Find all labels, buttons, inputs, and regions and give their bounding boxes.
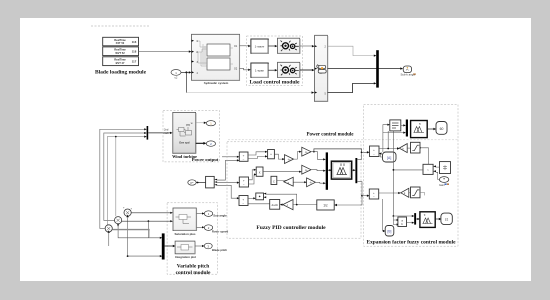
wire mux4 to integrator block [165, 245, 173, 247]
svg-text:control module: control module [176, 270, 211, 276]
expansion mux2b bar [406, 120, 408, 137]
wire tag A up-loop into sample hold [383, 125, 388, 152]
wire sumR1 out with junction up to sample hold [379, 131, 397, 149]
svg-text:Gen spd: Gen spd [179, 141, 190, 145]
outport oval 2 [206, 141, 215, 146]
wire drivetrain out2 to scope (through bus) [328, 68, 401, 70]
wire circleC up arrow from below [108, 230, 110, 233]
wire sumR2 out to gainR2 [379, 192, 399, 194]
thick gray feedback line [113, 229, 150, 231]
wire up into circleA from below [126, 215, 128, 218]
wire wind out1 to oval [196, 122, 204, 124]
wire pow to gain small [274, 154, 282, 159]
wire long vertical 2 to mux and circleB left [104, 133, 145, 220]
output rounded block s1 [441, 213, 452, 225]
wind mux bar [147, 126, 149, 140]
svg-text:Fuzzy PID controller module: Fuzzy PID controller module [256, 225, 326, 231]
svg-text:-k-: -k- [305, 168, 308, 172]
svg-text:mab: mab [164, 131, 170, 135]
sum block 3 [239, 196, 248, 206]
svg-text:RealTime: RealTime [114, 47, 126, 51]
wire fuzzy2 to goto block [427, 128, 434, 130]
signal builder block 1 [103, 37, 139, 46]
wire bottom feedback to mux4 in3 [128, 255, 160, 257]
wire wind mux to wind turbine block [148, 132, 170, 134]
wire tag A branch to mux2b in2 [383, 132, 404, 134]
integrator block [175, 241, 195, 254]
wire gain5 to mux in3 [315, 181, 325, 184]
wire from tag A to sumR1 lower input [380, 154, 383, 158]
outport oval blade pitch [204, 243, 212, 249]
drivetrain gear block 2 [278, 62, 300, 77]
wire long vertical 1 to mux and circleC left [100, 129, 145, 228]
wire divide to mux3 in2 [407, 222, 413, 224]
wire sum3 to n block [248, 198, 270, 204]
svg-text:Load control module: Load control module [250, 80, 300, 86]
wire hydraulic out2 to span block [240, 68, 249, 70]
du-dt derivative block [270, 200, 280, 210]
c constant block [271, 176, 277, 184]
expansion sumR1 block [370, 146, 380, 157]
pow function block [268, 150, 275, 159]
svg-text:−: − [243, 157, 245, 161]
variable pitch mux4 bar [162, 233, 165, 259]
hydraulic system subsystem block [192, 34, 240, 80]
gain triangle 3 [302, 165, 311, 174]
svg-text:du/dt: du/dt [272, 203, 278, 207]
busbar mux [376, 50, 379, 87]
wire from tag to rate block with junction [196, 182, 205, 184]
svg-text:−: − [243, 182, 245, 186]
svg-text:+: + [123, 207, 125, 210]
sum circle C [105, 225, 112, 232]
svg-text:117: 117 [132, 60, 137, 64]
svg-text:RealTime: RealTime [114, 38, 126, 42]
sum block 1 [239, 152, 248, 161]
pitch subsystem block [173, 208, 197, 231]
sum circle B [115, 217, 122, 224]
wire hydraulic out1 to wave block [240, 45, 249, 47]
wire to gear block 1 [268, 45, 275, 47]
gain triangle R2 [401, 188, 409, 197]
outport oval sub angle [204, 211, 212, 217]
wire sum1 upper feed from box edge [222, 156, 237, 158]
relay block M2 (mirrored inputs right) [423, 164, 436, 174]
svg-text:Saturation plus: Saturation plus [174, 232, 195, 236]
wires sum2 to product block [249, 170, 255, 184]
small ref block SR1 [440, 162, 451, 174]
wire sum1 feed: bend from right [217, 160, 237, 180]
svg-text:FXT 50: FXT 50 [116, 41, 125, 45]
svg-text:Rotor speed: Rotor speed [212, 229, 229, 233]
gain triangle R1 [399, 144, 407, 153]
signal builder block 2 [103, 47, 139, 56]
wire junction down to drivetrain in3 [185, 72, 187, 92]
wire wind out2 thick to oval [196, 142, 204, 144]
svg-text:x: x [259, 171, 261, 175]
wire demux out1 up to sumR1 feed [357, 153, 361, 160]
signal builder block 3 [103, 57, 139, 66]
expansion fuzzy block 2 [411, 121, 428, 138]
svg-text:118: 118 [132, 50, 137, 54]
sample hold block [390, 120, 401, 131]
wire circleA out to pitch subsystem in1 [132, 212, 171, 214]
wire gear1 to drivetrain tall block in1 [300, 45, 312, 47]
from tag A rounded [383, 152, 397, 162]
fuzzy logic controller block [331, 161, 351, 179]
svg-text:60: 60 [440, 127, 444, 131]
wire sum2 feed straight [217, 182, 237, 184]
svg-text:u2: u2 [175, 77, 178, 80]
wire integrator out to oval [195, 245, 202, 247]
scope block [403, 66, 411, 73]
from tag oval (power ref) [188, 180, 196, 185]
svg-text:RealTime: RealTime [114, 57, 126, 61]
goto rounded block 60 [436, 122, 447, 135]
svg-text:1-wave: 1-wave [255, 45, 265, 49]
divide block [398, 217, 407, 227]
fuzzy mux bar [326, 152, 328, 189]
svg-text:WVT 52: WVT 52 [115, 51, 125, 55]
wire sum3 feed: bend down [217, 185, 237, 198]
wind turbine subsystem block [173, 112, 196, 153]
wire gear2 to drivetrain tall block in2 [300, 69, 312, 71]
drivetrain gear block 1 [278, 38, 300, 53]
unit delay block mirrored [317, 200, 334, 210]
gain triangle 5 [307, 178, 316, 187]
wave filter block 1 [251, 39, 269, 54]
wire mux to fuzzy controller [328, 169, 331, 171]
wire M2 output left to long vertical [393, 169, 423, 171]
svg-text:-k-: -k- [305, 150, 308, 154]
wire gain3 to mux in2 [311, 170, 323, 171]
svg-text:Power control module: Power control module [306, 133, 354, 138]
product block [256, 167, 263, 176]
svg-text:w: w [191, 122, 193, 125]
expansion mux3 bar [414, 213, 416, 225]
wire gainR1 to saturation1 [407, 147, 410, 149]
wire blade block2 to hydraulic in2 [139, 51, 190, 53]
svg-text:[A]: [A] [387, 156, 391, 160]
wire SR1 to M2 in1 [436, 166, 440, 168]
wire drivetrain out3 bend to busbar [328, 83, 374, 92]
wire junction to mux3 in1 [393, 215, 412, 217]
gain triangle small kp1 [285, 155, 294, 164]
wire circleB out to pitch subsystem in2 with junction [122, 220, 171, 222]
gain triangle 6 mirrored [283, 200, 293, 210]
random source oval O2 [439, 177, 448, 183]
svg-text:Integration plot: Integration plot [175, 255, 196, 259]
wire fuzzy3 to out block [435, 218, 439, 220]
svg-text:1/z: 1/z [323, 204, 328, 208]
wire branch vertical 4 to circleB top [115, 137, 117, 217]
svg-text:s1: s1 [445, 218, 449, 222]
blade loading module dashed box [91, 25, 149, 27]
svg-text:Sub angle: Sub angle [213, 214, 227, 218]
svg-text:hydraulic system: hydraulic system [204, 81, 229, 85]
gain triangle 1 [302, 147, 311, 156]
svg-text:Power output: Power output [192, 157, 219, 162]
wire gainR2 to saturation2 [409, 192, 411, 194]
svg-text:Blade pitch: Blade pitch [212, 248, 227, 252]
svg-text:-k-: -k- [309, 180, 312, 184]
wire junction down to mux4 line [147, 221, 149, 238]
svg-text:+: + [131, 208, 133, 211]
wire junction to gain6 [293, 204, 317, 206]
wire saturation1 down to M2 block top [420, 148, 429, 165]
variable pitch dashed box [167, 203, 218, 274]
wire mux3 to fuzzy3 [416, 218, 419, 220]
wire gain6 to dudt arrow [280, 204, 283, 206]
expansion fuzzy block 3 [420, 212, 435, 228]
wire circleB bottom down then to mux4 in1 [117, 224, 119, 227]
gain triangle 4 mirrored [284, 177, 294, 186]
generator tall block [315, 35, 328, 101]
wire oval to hydraulic in4 with junction [181, 71, 189, 73]
svg-text:Expansion factor fuzzy control: Expansion factor fuzzy control module [366, 240, 456, 246]
fuzzy demux bar [355, 158, 357, 183]
constant oval source [171, 70, 181, 80]
long vertical feed down [392, 131, 394, 216]
expansion sumR2 block [369, 189, 378, 199]
svg-text:Blade loading module: Blade loading module [95, 69, 147, 75]
wires junction down to divide block [393, 216, 398, 225]
wire drivetrain out1 bend to busbar [328, 46, 374, 55]
svg-text:[B]: [B] [388, 229, 392, 233]
wire sample hold to mux2b in1 [401, 124, 404, 126]
span filter block 2 [251, 63, 269, 78]
goto tag B rounded [385, 226, 394, 237]
wire vertical to goto B oval [382, 199, 384, 231]
saturation block 2 [411, 187, 421, 198]
wire product to gain3 [263, 171, 300, 173]
outport oval 1 [206, 121, 215, 126]
load control module dashed box [247, 36, 303, 86]
fuzzy PID dashed box [227, 142, 361, 238]
wire c to gain5 [277, 180, 305, 182]
wire gain1 big loop to expansion sumR1 [314, 149, 367, 152]
wire long vertical 3 to mux and circleC top [107, 137, 144, 225]
sum block 2 [239, 177, 248, 187]
wire subsystem out1 to oval [197, 213, 203, 215]
outport oval rotor speed [204, 225, 212, 231]
power module dashed bottom edge [228, 139, 458, 141]
saturation block 1 [411, 142, 421, 153]
svg-text:-k-: -k- [288, 157, 291, 161]
wire saturation2 stub [420, 192, 425, 195]
wire from demux down into unit delay [334, 204, 337, 206]
sum circle A [123, 207, 133, 217]
n constant block (mirrored) [256, 193, 266, 200]
wires sum1 to pow block [248, 152, 267, 159]
rate transition block (mirrored, 3 right ports) [206, 176, 217, 188]
wire to gear block 2 [268, 69, 275, 71]
expansion factor dashed box [364, 105, 458, 247]
svg-text:BVT 47: BVT 47 [116, 61, 125, 65]
svg-text:1-span: 1-span [255, 69, 265, 73]
wire subsystem out2 to oval [197, 226, 203, 228]
svg-text:Variable pitch: Variable pitch [177, 264, 210, 270]
svg-text:−: − [242, 201, 244, 205]
wire fuzzy to demux [352, 169, 355, 171]
svg-text:Gain: Gain [439, 183, 445, 187]
wire gain1 split: down to mux in1 [311, 152, 324, 160]
wind turbine dashed box [163, 111, 220, 162]
svg-text:116: 116 [132, 40, 137, 44]
wire gain small to gain1 [294, 152, 301, 159]
wire O2 to M2 in2 [436, 172, 440, 179]
wire demux out2 to expansion sumR2 [362, 195, 367, 197]
wire n block top feedback line [266, 194, 297, 204]
